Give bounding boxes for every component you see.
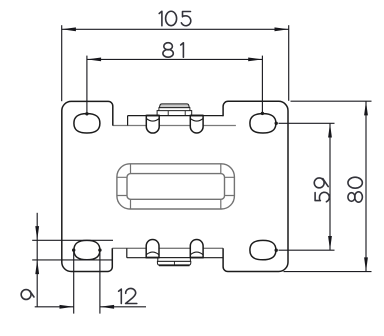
top clip band row3 (three cells) <box>157 111 192 116</box>
dimension 59: vertical line right, arrows, ext lines, dots <box>279 123 335 250</box>
hole top-right <box>250 114 276 133</box>
dimension 12: line segments, arrows outside, ext lines <box>35 250 146 314</box>
text 12 <box>119 288 137 303</box>
dimension 81: line, arrows, extension lines, dots <box>87 56 263 113</box>
bottom clip band row1 <box>158 258 191 262</box>
text 80 rotated <box>348 177 363 202</box>
gray recess floor line bottom <box>112 247 223 249</box>
bottom clip band row2 with divider, rounded bottom <box>157 261 190 265</box>
dimension 105: line, arrows, extension lines <box>62 25 289 101</box>
plate outline left part <box>62 101 113 271</box>
hole bottom-right <box>250 240 276 259</box>
top clip gray cap <box>159 104 189 108</box>
dimension 80: vertical line far right, arrows, ext lines <box>284 101 372 271</box>
gray recess floor line top <box>113 125 236 127</box>
top ledge line and step <box>128 116 224 126</box>
central slot outer <box>117 164 234 209</box>
bottom tab left <box>146 239 159 257</box>
hole top-left <box>74 114 100 133</box>
dimension 9: vertical line bottom-left, arrows outside, ext lines <box>32 213 113 307</box>
text 105 <box>159 11 191 25</box>
hole bottom-left <box>74 240 100 259</box>
top tab right <box>190 116 203 134</box>
bottom ledge line and step <box>127 248 223 257</box>
central slot inner <box>127 174 225 200</box>
text 81 <box>163 43 183 58</box>
bottom tab right <box>190 239 203 257</box>
slot corner connectors <box>117 164 234 209</box>
plate outline right part <box>223 101 288 271</box>
text 9 rotated <box>21 290 34 300</box>
dots bottom-left hole <box>72 248 75 251</box>
text 59 rotated <box>314 178 329 202</box>
top tab left <box>146 116 159 134</box>
top clip thin strip row2 <box>159 108 190 111</box>
